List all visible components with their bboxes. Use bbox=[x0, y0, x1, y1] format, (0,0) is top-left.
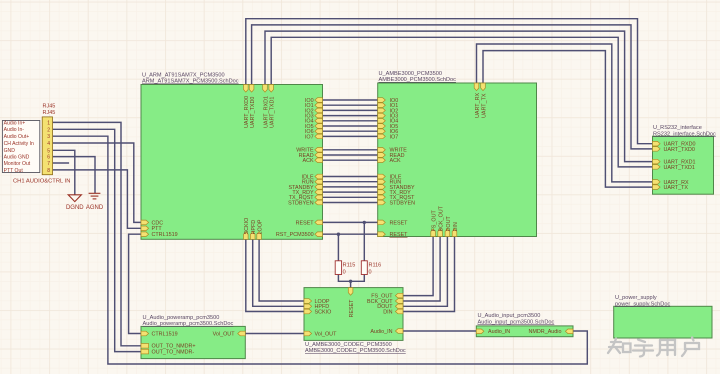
svg-text:IO7: IO7 bbox=[305, 134, 314, 140]
svg-text:STDBYEN: STDBYEN bbox=[390, 200, 416, 206]
svg-text:GND: GND bbox=[4, 148, 16, 154]
svg-text:UART_TXD0: UART_TXD0 bbox=[664, 147, 695, 153]
svg-text:U_RS232_interface: U_RS232_interface bbox=[653, 125, 702, 131]
svg-text:ACK: ACK bbox=[303, 158, 314, 164]
svg-text:power_supply.SchDoc: power_supply.SchDoc bbox=[615, 301, 670, 307]
svg-text:Audio_input_pcm3500.SchDoc: Audio_input_pcm3500.SchDoc bbox=[478, 319, 555, 325]
svg-text:BCK_OUT: BCK_OUT bbox=[439, 205, 445, 231]
svg-text:Audio In+: Audio In+ bbox=[4, 120, 26, 126]
svg-text:PTT Out: PTT Out bbox=[4, 168, 24, 174]
svg-text:U_AMBE3000_CODEC_PCM3500: U_AMBE3000_CODEC_PCM3500 bbox=[305, 342, 392, 348]
svg-text:UART_RXD1: UART_RXD1 bbox=[263, 96, 269, 128]
svg-text:R115: R115 bbox=[343, 263, 356, 269]
svg-text:RESET: RESET bbox=[390, 220, 409, 226]
svg-text:CH Activity In: CH Activity In bbox=[4, 141, 34, 147]
svg-text:LOOP: LOOP bbox=[258, 219, 264, 234]
svg-text:Audio_IN: Audio_IN bbox=[488, 329, 510, 335]
svg-text:ACK: ACK bbox=[390, 158, 401, 164]
svg-text:AGND: AGND bbox=[86, 205, 104, 211]
svg-text:U_AMBE3000_PCM3500: U_AMBE3000_PCM3500 bbox=[379, 71, 442, 77]
svg-text:8: 8 bbox=[47, 168, 50, 174]
svg-text:5: 5 bbox=[47, 148, 50, 154]
svg-text:U_Audio_poweramp_pcm3500: U_Audio_poweramp_pcm3500 bbox=[143, 315, 220, 321]
svg-text:UART_TXD0: UART_TXD0 bbox=[250, 97, 256, 128]
svg-text:OUT_TO_NMDR-: OUT_TO_NMDR- bbox=[152, 350, 195, 356]
svg-text:RJ45: RJ45 bbox=[43, 110, 56, 116]
svg-text:UART_TX: UART_TX bbox=[481, 93, 487, 118]
svg-text:UART_TXD1: UART_TXD1 bbox=[270, 97, 276, 128]
svg-text:Audio In-: Audio In- bbox=[4, 127, 25, 133]
svg-text:RST_PCM3500: RST_PCM3500 bbox=[276, 232, 314, 238]
svg-text:UART_TXD1: UART_TXD1 bbox=[664, 165, 695, 171]
svg-text:Monitor Out: Monitor Out bbox=[4, 161, 31, 167]
svg-text:IO7: IO7 bbox=[390, 134, 399, 140]
svg-text:0: 0 bbox=[369, 270, 372, 276]
svg-text:3: 3 bbox=[47, 134, 50, 140]
svg-text:Vol_OUT: Vol_OUT bbox=[213, 331, 236, 337]
svg-text:Vol_OUT: Vol_OUT bbox=[315, 331, 338, 337]
svg-text:CTRL1519: CTRL1519 bbox=[152, 232, 178, 238]
svg-text:SCKIO: SCKIO bbox=[244, 218, 250, 235]
svg-text:RESET: RESET bbox=[349, 299, 355, 318]
svg-text:RESET: RESET bbox=[296, 220, 315, 226]
svg-text:U_power_supply: U_power_supply bbox=[615, 295, 657, 301]
svg-text:CTRL1519: CTRL1519 bbox=[152, 331, 178, 337]
svg-text:Audio_IN: Audio_IN bbox=[370, 329, 392, 335]
svg-text:Audio GND: Audio GND bbox=[4, 155, 30, 161]
svg-text:RS232_interface.SchDoc: RS232_interface.SchDoc bbox=[653, 131, 716, 137]
svg-text:DGND: DGND bbox=[66, 205, 84, 211]
svg-text:STDBYEN: STDBYEN bbox=[288, 200, 314, 206]
svg-text:Audio_poweramp_pcm3500.SchDoc: Audio_poweramp_pcm3500.SchDoc bbox=[143, 321, 234, 327]
svg-text:4: 4 bbox=[47, 141, 50, 147]
svg-text:ARM_AT91SAM7X_PCM3500.SchDoc: ARM_AT91SAM7X_PCM3500.SchDoc bbox=[142, 79, 239, 85]
svg-text:2: 2 bbox=[47, 127, 50, 133]
svg-text:1: 1 bbox=[47, 120, 50, 126]
svg-text:U_ARM_AT91SAM7X_PCM3500: U_ARM_AT91SAM7X_PCM3500 bbox=[142, 72, 225, 78]
svg-text:RJ45: RJ45 bbox=[43, 104, 56, 110]
svg-text:R116: R116 bbox=[369, 263, 382, 269]
svg-text:DOUT: DOUT bbox=[446, 216, 452, 232]
svg-text:7: 7 bbox=[47, 161, 50, 167]
svg-text:0: 0 bbox=[343, 270, 346, 276]
svg-text:HPFD: HPFD bbox=[251, 220, 257, 235]
svg-text:Audio Out+: Audio Out+ bbox=[4, 134, 30, 140]
svg-text:FS_OUT: FS_OUT bbox=[432, 210, 438, 232]
svg-text:U_Audio_input_pcm3500: U_Audio_input_pcm3500 bbox=[478, 313, 541, 319]
svg-text:UART_TX: UART_TX bbox=[664, 185, 689, 191]
svg-text:DIN: DIN bbox=[453, 222, 459, 231]
svg-text:RESET: RESET bbox=[390, 232, 409, 238]
svg-text:SCKIO: SCKIO bbox=[315, 309, 332, 315]
svg-text:NMDR_Audio: NMDR_Audio bbox=[529, 329, 562, 335]
svg-text:AMBE3000_PCM3500.SchDoc: AMBE3000_PCM3500.SchDoc bbox=[379, 77, 457, 83]
svg-text:AMBE3000_CODEC_PCM3500.SchDoc: AMBE3000_CODEC_PCM3500.SchDoc bbox=[305, 348, 406, 354]
svg-text:CH1 AUDIO&CTRL IN: CH1 AUDIO&CTRL IN bbox=[13, 179, 70, 185]
svg-text:DIN: DIN bbox=[383, 309, 392, 315]
svg-text:UART_RX: UART_RX bbox=[475, 93, 481, 118]
svg-text:6: 6 bbox=[47, 155, 50, 161]
